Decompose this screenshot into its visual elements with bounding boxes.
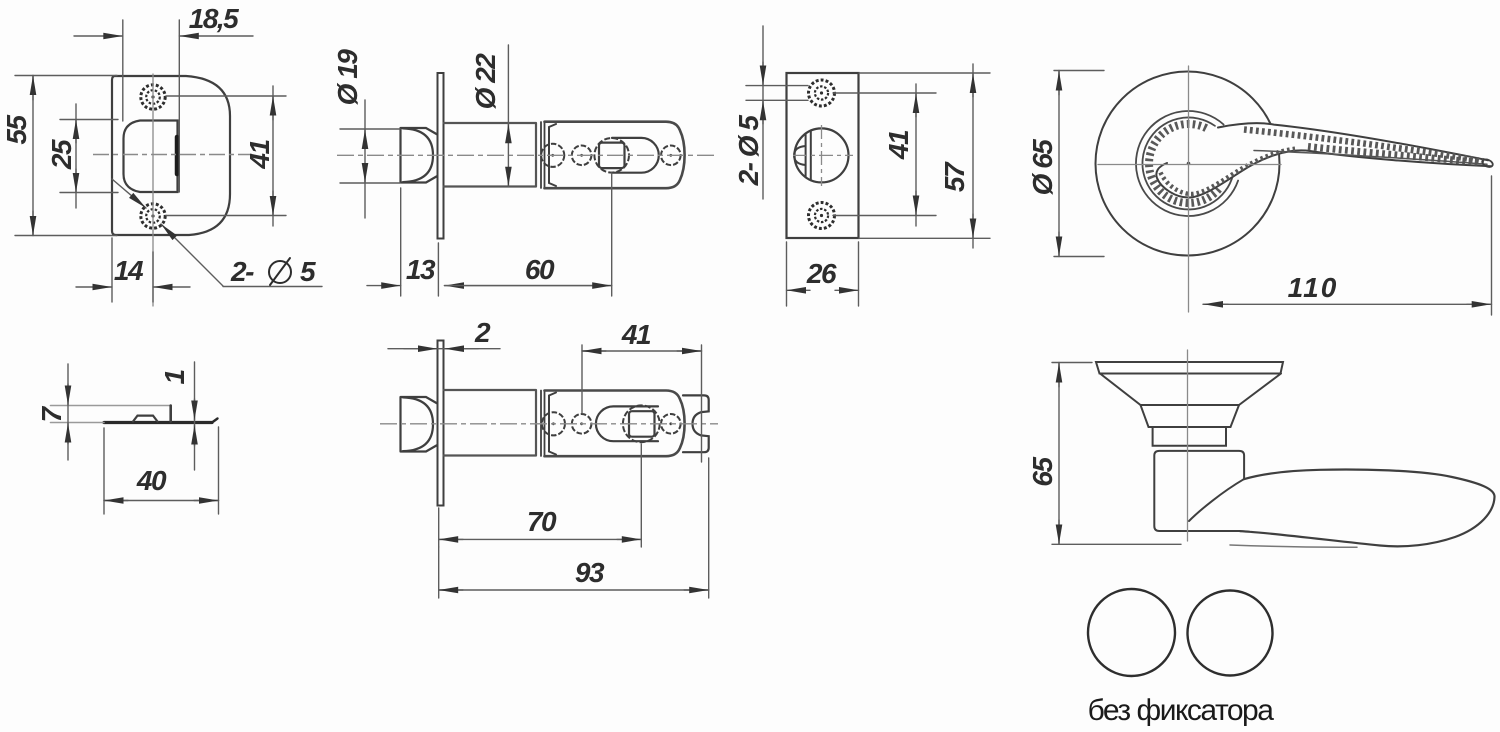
- cutout bold right edge: [175, 137, 180, 174]
- cam obround: [596, 406, 658, 441]
- circle 3: [661, 414, 681, 434]
- right lip tick: [212, 419, 218, 423]
- dim 26: [787, 242, 859, 306]
- spindle square: [599, 143, 625, 169]
- lever twist hatch lower band: [1308, 147, 1481, 163]
- dim 60: [445, 173, 612, 296]
- grip underline: [1230, 545, 1357, 547]
- lever lower hatch: [1161, 149, 1296, 194]
- lever top edge: [1218, 123, 1488, 160]
- dim 70: [439, 444, 642, 547]
- centerline: [1187, 350, 1189, 541]
- svg-text:60: 60: [525, 254, 555, 285]
- dim 2-Ø5 (left): [746, 26, 808, 199]
- bolt bevel arc: [403, 397, 433, 451]
- case outline: [545, 391, 685, 457]
- hub cylinder: [1154, 451, 1244, 531]
- svg-text:40: 40: [136, 465, 167, 496]
- circle 2: [572, 414, 592, 434]
- top surface line: [51, 405, 171, 407]
- collar rope hatch: [1149, 124, 1219, 203]
- inner hole: [1155, 130, 1222, 197]
- latch cutout: [124, 121, 178, 193]
- screw hole top: [141, 85, 165, 109]
- dim 57: [859, 64, 990, 248]
- dim 41: [833, 84, 936, 226]
- dim 93: [439, 458, 709, 598]
- spring bracket: [549, 393, 556, 455]
- cam obround: [612, 138, 659, 173]
- svg-text:2-: 2-: [230, 256, 254, 287]
- barrel: [444, 123, 537, 187]
- dim 7: [67, 364, 69, 460]
- svg-text:14: 14: [114, 255, 144, 286]
- svg-text:Ø 22: Ø 22: [470, 53, 501, 110]
- svg-text:13: 13: [406, 254, 436, 285]
- case left edges: [541, 391, 545, 457]
- svg-text:без фиксатора: без фиксатора: [1088, 694, 1275, 727]
- svg-text:57: 57: [939, 161, 970, 192]
- circle 3: [661, 146, 681, 166]
- dim Ø22: [507, 45, 509, 186]
- svg-text:41: 41: [883, 130, 914, 160]
- svg-text:25: 25: [46, 139, 77, 170]
- svg-text:1: 1: [159, 370, 190, 385]
- dim 1: [194, 362, 196, 470]
- dim Ø65: [1054, 71, 1104, 257]
- dim 41 (right): [166, 86, 286, 226]
- svg-text:41: 41: [621, 319, 651, 350]
- bolt: [401, 128, 438, 183]
- screw hole bottom: [809, 203, 835, 229]
- centerlines: [793, 154, 853, 156]
- plate outline: [787, 73, 859, 238]
- svg-text:Ø 65: Ø 65: [1027, 139, 1058, 196]
- svg-text:55: 55: [1, 115, 32, 145]
- spindle circle: [594, 138, 629, 173]
- rose neck: [1141, 405, 1240, 427]
- knob circle right: [1188, 591, 1273, 676]
- lever grip: [1240, 469, 1495, 546]
- centerlines: [1188, 66, 1190, 312]
- plate edge (thick): [104, 421, 212, 424]
- bolt face circle: [795, 128, 849, 182]
- strike plate outline: [112, 76, 230, 235]
- dim 40: [104, 427, 219, 514]
- vertical centerline: [152, 74, 154, 306]
- svg-text:93: 93: [575, 557, 605, 588]
- svg-text:5: 5: [300, 256, 316, 287]
- circle 2: [572, 146, 592, 166]
- lever middle line: [1254, 151, 1487, 165]
- dim 41 (case): [582, 345, 702, 462]
- leader 2-Ø5: [112, 179, 322, 287]
- rose disc: [1096, 362, 1283, 374]
- tab step vertical: [169, 406, 172, 422]
- svg-text:110: 110: [1288, 272, 1339, 303]
- bolt bevel arc: [403, 128, 433, 182]
- svg-text:Ø 19: Ø 19: [332, 49, 363, 106]
- dim 18,5: [74, 20, 253, 192]
- dim 55: [15, 76, 117, 236]
- tab bump: [133, 416, 158, 422]
- rose circle: [1096, 72, 1280, 256]
- collar ring inner: [1142, 117, 1233, 209]
- spindle square: [629, 411, 655, 437]
- neck step: [1153, 427, 1226, 446]
- drive fork: [683, 395, 709, 452]
- dim Ø19: [340, 100, 400, 218]
- screw hole bottom: [141, 204, 165, 228]
- spindle circle: [623, 405, 660, 442]
- dim 2: [388, 348, 500, 350]
- rose cone: [1100, 374, 1281, 406]
- lever body fill: [1156, 123, 1491, 197]
- circle 1: [541, 144, 564, 167]
- svg-text:2: 2: [474, 317, 491, 348]
- centerline: [337, 154, 716, 156]
- dim 110: [1203, 176, 1492, 315]
- lever bottom edge: [1156, 150, 1491, 197]
- svg-text:18,5: 18,5: [189, 3, 239, 34]
- svg-text:41: 41: [244, 140, 275, 170]
- collar ring outer: [1136, 111, 1238, 216]
- centerline: [380, 423, 718, 425]
- lever S-neck: [1189, 479, 1244, 521]
- svg-text:65: 65: [1027, 457, 1058, 487]
- svg-text:70: 70: [527, 506, 557, 537]
- circle 1: [542, 412, 565, 435]
- svg-text:2- Ø 5: 2- Ø 5: [733, 115, 764, 187]
- case outline: [545, 122, 685, 189]
- left underside line: [51, 422, 105, 424]
- lever twist hatch: [1244, 130, 1484, 162]
- tip ellipse: [1481, 158, 1494, 168]
- faceplate: [438, 341, 444, 506]
- dim 65: [1052, 363, 1181, 545]
- case left edges: [541, 122, 545, 188]
- knob circle left: [1088, 589, 1175, 676]
- bolt: [401, 397, 438, 452]
- barrel: [444, 390, 537, 456]
- horizontal centerline: [93, 154, 252, 156]
- center dot: [1187, 162, 1191, 166]
- dim 14: [76, 238, 190, 302]
- spring bracket: [549, 124, 556, 186]
- dim 13: [367, 188, 438, 296]
- screw hole top: [809, 80, 835, 106]
- bolt bevel chords: [805, 134, 807, 178]
- plunger bump: [794, 146, 806, 165]
- svg-text:26: 26: [806, 258, 837, 289]
- faceplate: [438, 73, 444, 239]
- dim 25: [60, 104, 118, 208]
